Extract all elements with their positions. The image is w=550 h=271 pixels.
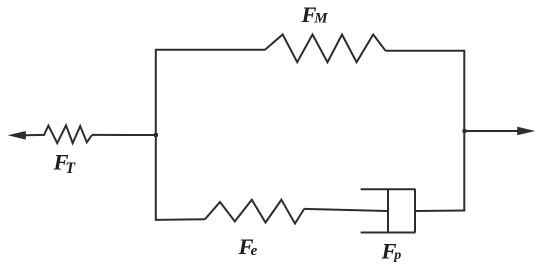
wire: right bus (top-right segment and right vertical)	[386, 51, 465, 211]
svg-text:e: e	[251, 243, 258, 259]
left arrow	[8, 131, 45, 140]
node left junction	[154, 133, 158, 137]
label F_M	[301, 2, 329, 27]
spring F_e (parallel elastic element)	[205, 200, 304, 224]
wire: spring F_T to left node	[92, 134, 157, 136]
right arrow	[463, 127, 535, 136]
svg-text:p: p	[393, 248, 401, 263]
node right junction	[463, 129, 467, 133]
spring F_M (contractile/muscle element)	[265, 35, 386, 63]
damper F_p (dashpot)	[361, 189, 416, 232]
label F_e	[238, 234, 258, 259]
label F_T	[53, 150, 77, 178]
wire: damper to right node	[415, 210, 465, 213]
spring F_T (tendon elastic element)	[44, 125, 92, 143]
label F_p	[381, 238, 402, 263]
wire: piston rod from spring F_e into damper	[304, 209, 388, 211]
svg-text:M: M	[313, 10, 328, 26]
svg-text:T: T	[65, 160, 76, 177]
wire: left bus (top-left segment, left vertical, bottom-left segment)	[156, 50, 265, 220]
